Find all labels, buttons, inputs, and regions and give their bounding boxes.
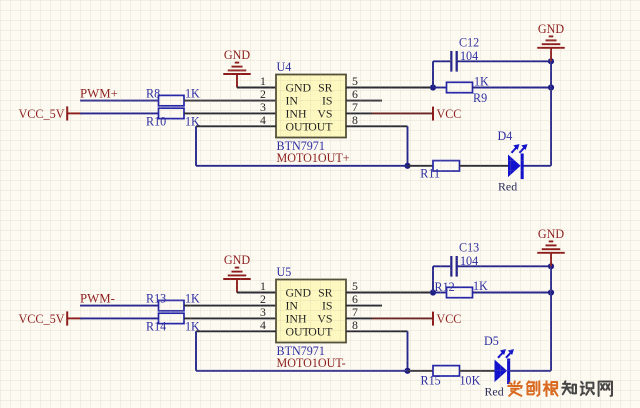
svg-text:VCC_5V: VCC_5V [19, 312, 65, 326]
svg-text:104: 104 [460, 49, 478, 63]
svg-text:2: 2 [260, 292, 266, 306]
svg-text:OUT: OUT [308, 119, 333, 133]
svg-text:BTN7971: BTN7971 [277, 344, 325, 358]
svg-text:OUT: OUT [286, 324, 311, 338]
svg-text:VS: VS [317, 106, 332, 120]
svg-text:104: 104 [460, 254, 478, 268]
svg-text:5: 5 [352, 74, 358, 88]
svg-text:4: 4 [260, 318, 266, 332]
svg-text:6: 6 [352, 87, 358, 101]
svg-text:C12: C12 [459, 36, 479, 50]
svg-text:D4: D4 [498, 129, 513, 143]
svg-text:VCC: VCC [437, 312, 462, 326]
svg-text:R12: R12 [435, 280, 455, 294]
svg-text:GND: GND [224, 48, 250, 62]
svg-text:5: 5 [352, 279, 358, 293]
svg-text:OUT: OUT [286, 119, 311, 133]
svg-text:Red: Red [498, 179, 517, 193]
svg-text:R15: R15 [421, 374, 441, 388]
svg-text:MOTO1OUT+: MOTO1OUT+ [277, 151, 350, 165]
svg-text:7: 7 [352, 100, 358, 114]
svg-text:3: 3 [260, 100, 266, 114]
svg-text:6: 6 [352, 292, 358, 306]
svg-text:8: 8 [352, 113, 358, 127]
svg-text:1: 1 [260, 279, 266, 293]
svg-text:VCC: VCC [437, 107, 462, 121]
svg-text:Red: Red [485, 384, 504, 398]
svg-text:IN: IN [286, 94, 299, 108]
svg-text:GND: GND [538, 227, 564, 241]
svg-text:VS: VS [317, 311, 332, 325]
svg-text:PWM-: PWM- [80, 291, 115, 305]
svg-text:GND: GND [538, 22, 564, 36]
svg-text:IS: IS [322, 299, 333, 313]
svg-text:GND: GND [286, 286, 312, 300]
svg-text:1K: 1K [185, 291, 200, 305]
svg-text:R13: R13 [146, 291, 166, 305]
svg-text:R10: R10 [146, 114, 166, 128]
svg-text:R9: R9 [473, 91, 487, 105]
svg-text:INH: INH [286, 106, 307, 120]
svg-text:1: 1 [260, 74, 266, 88]
svg-text:MOTO1OUT-: MOTO1OUT- [277, 356, 346, 370]
svg-text:C13: C13 [459, 241, 479, 255]
svg-text:1K: 1K [473, 279, 488, 293]
svg-text:1K: 1K [474, 75, 489, 89]
svg-text:4: 4 [260, 113, 266, 127]
svg-text:2: 2 [260, 87, 266, 101]
svg-text:GND: GND [224, 253, 250, 267]
svg-text:IS: IS [322, 94, 333, 108]
svg-text:R11: R11 [420, 166, 440, 180]
svg-text:GND: GND [286, 81, 312, 95]
svg-text:R8: R8 [146, 86, 160, 100]
svg-text:1K: 1K [185, 319, 200, 333]
svg-text:R14: R14 [146, 319, 166, 333]
svg-text:D5: D5 [484, 334, 499, 348]
svg-text:SR: SR [318, 286, 333, 300]
svg-text:1K: 1K [185, 114, 200, 128]
svg-text:PWM+: PWM+ [80, 86, 118, 100]
svg-text:10K: 10K [460, 374, 481, 388]
svg-text:1K: 1K [185, 86, 200, 100]
svg-text:IN: IN [286, 299, 299, 313]
svg-text:BTN7971: BTN7971 [277, 139, 325, 153]
svg-text:U5: U5 [277, 265, 292, 279]
svg-text:U4: U4 [277, 60, 292, 74]
svg-text:OUT: OUT [308, 324, 333, 338]
svg-text:INH: INH [286, 311, 307, 325]
svg-text:7: 7 [352, 305, 358, 319]
svg-text:8: 8 [352, 318, 358, 332]
svg-text:3: 3 [260, 305, 266, 319]
svg-text:SR: SR [318, 81, 333, 95]
svg-text:VCC_5V: VCC_5V [19, 107, 65, 121]
